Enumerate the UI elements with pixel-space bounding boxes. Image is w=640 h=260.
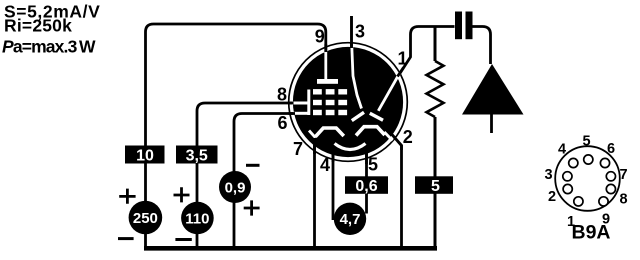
svg-text:0,9: 0,9 (225, 179, 246, 196)
plus sign at 250 (119, 189, 135, 204)
svg-text:9: 9 (315, 27, 325, 47)
wire: pin 7 cathode drop to ground rail (313, 138, 316, 247)
B9A pin 7 hole (606, 172, 615, 181)
B9A pin 4 hole (569, 158, 578, 167)
B9A pin 3 hole (563, 172, 572, 181)
wire overlay: pin 4 lead crossing ring and heater arc (332, 145, 335, 162)
ground rail (bottom bus) (144, 246, 437, 251)
tube V1 heater arc (335, 144, 366, 150)
voltage circle 0,9 (219, 171, 251, 203)
tube V1 cathode chevron right (356, 127, 385, 136)
voltage circle 250 (129, 201, 163, 235)
svg-text:5: 5 (368, 155, 378, 175)
svg-text:3: 3 (544, 167, 552, 183)
wire: B+ rail from left vertical up to tube pin 9 (146, 24, 326, 247)
svg-text:7: 7 (293, 139, 303, 159)
svg-text:2: 2 (403, 127, 413, 147)
svg-text:8: 8 (619, 192, 627, 208)
resistor value box 10 (125, 146, 165, 165)
wire: cap to output arrow (473, 27, 491, 65)
wire overlay: pin 3 lead crossing ring (350, 42, 353, 48)
svg-text:Ri=250k: Ri=250k (4, 16, 72, 36)
svg-text:250: 250 (133, 210, 158, 227)
svg-text:4: 4 (320, 155, 330, 175)
wire: pin 5 heater drop (365, 148, 368, 214)
plus sign at 0,9 (244, 200, 260, 215)
tube V1 grid ladder rail (307, 90, 310, 116)
wire: pin 8 grid feed with vertical drop (197, 103, 294, 247)
svg-text:4,7: 4,7 (340, 211, 361, 228)
svg-text:6: 6 (607, 141, 615, 157)
wire: pin 6 feed with vertical drop (234, 114, 295, 248)
svg-text:10: 10 (136, 147, 154, 164)
wire: pin 1 anode lead up to coupling cap (400, 27, 455, 75)
plus sign at 110 (174, 187, 190, 202)
resistor value box 0,6 (345, 176, 388, 195)
tube V1 pin 2 internal leadlet (384, 132, 392, 141)
minus sign at 0,9 (246, 164, 260, 167)
svg-text:8: 8 (277, 85, 287, 105)
tube V1 pin 6 internal lead (293, 112, 309, 115)
resistor value box 3,5 (176, 146, 218, 165)
tube V1 black disk (293, 47, 403, 157)
tube V1 cathode chevron left (315, 128, 344, 137)
B9A pin 6 hole (600, 158, 609, 167)
wire overlay: pin 6 lead crossing ring (289, 112, 296, 115)
minus sign at 110 (175, 238, 191, 241)
capacitor coupling C (455, 12, 473, 40)
tube V1 pin 8 internal lead (292, 102, 309, 105)
svg-text:2: 2 (548, 189, 556, 205)
wire: pin 2 drop to ground rail (392, 134, 402, 247)
tube V1 envelope outer circle (289, 43, 408, 162)
svg-text:Pa=max.3W: Pa=max.3W (2, 37, 96, 57)
svg-text:110: 110 (185, 210, 209, 227)
svg-text:B9A: B9A (571, 222, 610, 244)
svg-text:0,6: 0,6 (355, 178, 377, 195)
B9A pin 8 hole (606, 184, 615, 193)
tube V1 pin 1 electrode bar (370, 113, 383, 120)
wire overlay: pin 8 lead crossing ring (288, 102, 294, 105)
tube V1 pin 9 internal lead (324, 50, 327, 80)
B9A pin 5 hole (584, 155, 593, 164)
wire overlay: pin 2 lead crossing ring (392, 134, 402, 150)
wire: output arrow stub (490, 115, 493, 134)
svg-text:3: 3 (355, 22, 365, 42)
svg-text:5: 5 (582, 134, 590, 150)
B9A pin 1 hole (574, 197, 583, 206)
svg-text:5: 5 (431, 178, 440, 195)
B9A base outline circle (555, 146, 620, 211)
tube V1 anode bar (317, 79, 338, 84)
voltage circle 4,7 (334, 203, 366, 235)
wire overlay: pin 1 lead crossing ring (398, 68, 404, 77)
B9A pin 9 hole (599, 197, 608, 206)
svg-text:4: 4 (558, 142, 566, 158)
wire overlay: pin 7 lead crossing ring (313, 138, 316, 154)
voltage circle 110 (181, 202, 214, 235)
tube V1 grid dashes (313, 89, 347, 115)
tube V1 pin 3 internal lead (352, 47, 362, 109)
svg-text:1: 1 (397, 49, 407, 69)
resistor value box 5 (415, 176, 453, 195)
svg-text:7: 7 (619, 167, 627, 183)
tube V1 pin 7 internal leadlet (309, 131, 316, 138)
tube V1 pin 3 stub above (350, 16, 353, 47)
tube V1 pin 1 internal lead (378, 73, 400, 111)
minus sign at 250 (118, 237, 134, 240)
wire: anode load vertical through resistor (434, 27, 437, 248)
wire overlay: pin 9 lead crossing ring (324, 44, 327, 52)
tube V1 pin 3 electrode bar (352, 112, 364, 120)
B9A pin 2 hole (563, 184, 572, 193)
svg-text:3,5: 3,5 (186, 147, 208, 164)
wire: pin 4 heater drop (332, 146, 335, 220)
wire overlay: pin 5 lead crossing ring and heater arc (365, 146, 368, 164)
output arrow (AF output) (462, 64, 524, 115)
resistor zigzag (anode load) (427, 61, 444, 117)
svg-text:6: 6 (277, 113, 287, 133)
